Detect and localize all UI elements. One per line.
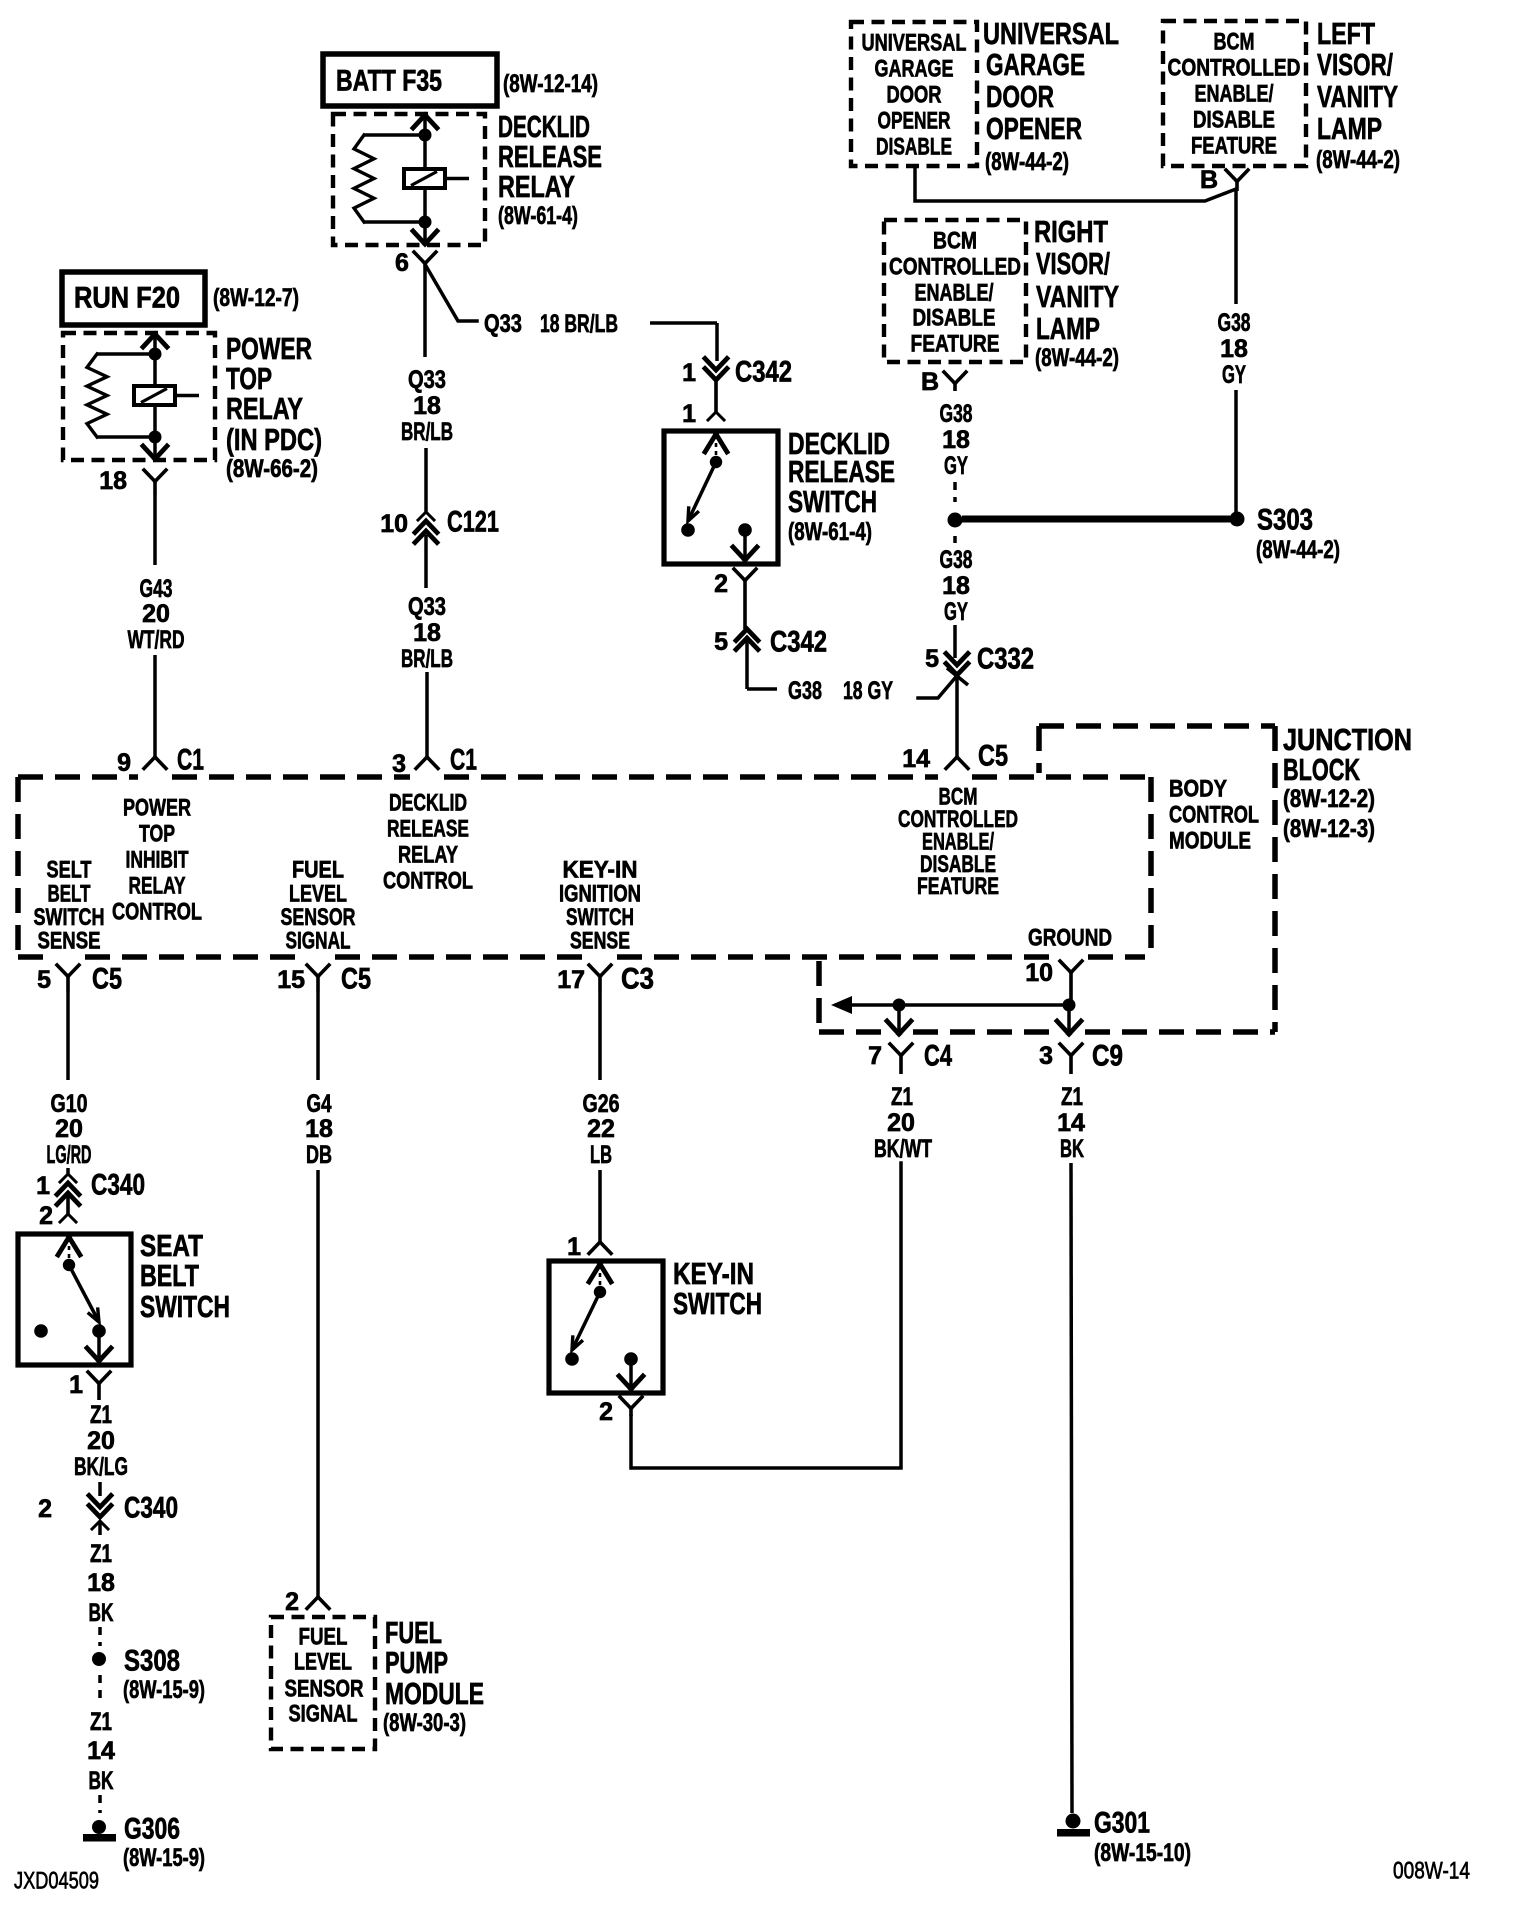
svg-text:JXD04509: JXD04509 — [14, 1868, 99, 1895]
svg-text:18: 18 — [942, 572, 970, 600]
svg-text:SWITCH: SWITCH — [673, 1286, 762, 1321]
svg-text:SWITCH: SWITCH — [140, 1289, 230, 1324]
svg-text:CONTROL: CONTROL — [383, 868, 473, 895]
svg-text:RIGHT: RIGHT — [1034, 214, 1108, 249]
svg-text:C342: C342 — [770, 626, 827, 659]
svg-text:C1: C1 — [450, 744, 477, 777]
svg-text:CONTROL: CONTROL — [1169, 802, 1259, 829]
svg-text:G306: G306 — [124, 1813, 180, 1846]
svg-text:C332: C332 — [977, 643, 1034, 676]
svg-text:(8W-44-2): (8W-44-2) — [1316, 146, 1400, 174]
svg-text:S303: S303 — [1257, 504, 1313, 537]
svg-text:008W-14: 008W-14 — [1393, 1858, 1470, 1885]
svg-text:C5: C5 — [341, 963, 371, 996]
svg-text:Q33: Q33 — [484, 310, 522, 338]
svg-text:18 GY: 18 GY — [843, 677, 893, 705]
svg-text:RELAY: RELAY — [226, 391, 303, 426]
svg-text:INHIBIT: INHIBIT — [126, 847, 189, 874]
svg-text:BODY: BODY — [1169, 776, 1227, 803]
svg-text:(8W-61-4): (8W-61-4) — [788, 518, 872, 546]
svg-text:GARAGE: GARAGE — [875, 56, 954, 83]
svg-text:LAMP: LAMP — [1036, 311, 1100, 346]
svg-text:3: 3 — [1039, 1042, 1053, 1070]
svg-text:18: 18 — [305, 1115, 333, 1143]
svg-text:FEATURE: FEATURE — [917, 873, 999, 900]
svg-text:B: B — [921, 368, 939, 396]
svg-text:(8W-66-2): (8W-66-2) — [226, 455, 318, 483]
svg-text:FEATURE: FEATURE — [1191, 133, 1277, 160]
svg-text:(8W-30-3): (8W-30-3) — [383, 1709, 466, 1737]
svg-text:(8W-12-2): (8W-12-2) — [1283, 785, 1375, 813]
svg-text:(8W-44-2): (8W-44-2) — [1256, 536, 1340, 564]
svg-text:(8W-44-2): (8W-44-2) — [985, 148, 1069, 176]
svg-text:C9: C9 — [1092, 1040, 1123, 1073]
svg-text:C3: C3 — [621, 963, 654, 996]
svg-text:UNIVERSAL: UNIVERSAL — [983, 16, 1119, 51]
svg-text:CONTROLLED: CONTROLLED — [889, 254, 1021, 281]
svg-text:DECKLID: DECKLID — [389, 790, 467, 817]
svg-text:UNIVERSAL: UNIVERSAL — [862, 30, 967, 57]
svg-text:1: 1 — [682, 400, 696, 428]
svg-text:SENSOR: SENSOR — [285, 1676, 364, 1703]
svg-text:G26: G26 — [583, 1090, 620, 1118]
svg-text:5: 5 — [37, 966, 51, 994]
svg-text:Q33: Q33 — [408, 366, 446, 394]
svg-text:2: 2 — [38, 1495, 52, 1523]
svg-text:BK/WT: BK/WT — [874, 1135, 932, 1163]
svg-text:Z1: Z1 — [90, 1540, 112, 1568]
svg-text:9: 9 — [117, 749, 131, 777]
svg-text:G38: G38 — [1218, 309, 1251, 337]
svg-text:15: 15 — [277, 966, 305, 994]
svg-text:BK/LG: BK/LG — [74, 1453, 128, 1481]
svg-text:Z1: Z1 — [1061, 1083, 1083, 1111]
svg-text:G38: G38 — [788, 677, 822, 705]
svg-text:LAMP: LAMP — [1317, 111, 1382, 146]
svg-text:BR/LB: BR/LB — [401, 418, 453, 446]
svg-text:GY: GY — [944, 452, 968, 480]
svg-text:18: 18 — [413, 619, 441, 647]
svg-text:(8W-15-10): (8W-15-10) — [1094, 1839, 1191, 1867]
svg-text:2: 2 — [285, 1588, 299, 1616]
svg-text:18: 18 — [99, 467, 127, 495]
svg-text:PUMP: PUMP — [385, 1645, 448, 1680]
svg-text:C342: C342 — [735, 356, 792, 389]
svg-text:C340: C340 — [124, 1492, 178, 1525]
svg-text:6: 6 — [395, 249, 409, 277]
svg-text:(8W-15-9): (8W-15-9) — [123, 1844, 205, 1872]
svg-text:(8W-61-4): (8W-61-4) — [498, 202, 578, 230]
svg-text:G4: G4 — [307, 1090, 332, 1118]
svg-text:C1: C1 — [177, 744, 204, 777]
svg-text:10: 10 — [1025, 959, 1053, 987]
svg-text:C4: C4 — [924, 1040, 952, 1073]
svg-text:DISABLE: DISABLE — [913, 305, 996, 332]
svg-text:GY: GY — [1222, 361, 1246, 389]
svg-text:BELT: BELT — [140, 1258, 199, 1293]
svg-text:(8W-12-7): (8W-12-7) — [213, 284, 299, 312]
svg-text:SENSE: SENSE — [38, 928, 101, 955]
svg-text:BATT F35: BATT F35 — [336, 65, 442, 98]
svg-text:G10: G10 — [51, 1090, 88, 1118]
svg-text:22: 22 — [587, 1115, 615, 1143]
svg-text:SIGNAL: SIGNAL — [289, 1701, 358, 1728]
svg-text:DISABLE: DISABLE — [1193, 107, 1275, 134]
svg-text:C340: C340 — [91, 1169, 145, 1202]
svg-text:VANITY: VANITY — [1036, 279, 1119, 314]
svg-text:G301: G301 — [1094, 1807, 1150, 1840]
svg-text:5: 5 — [714, 628, 728, 656]
svg-text:Z1: Z1 — [891, 1083, 913, 1111]
svg-text:ENABLE/: ENABLE/ — [1195, 81, 1274, 108]
svg-text:CONTROLLED: CONTROLLED — [1168, 55, 1301, 82]
svg-text:1: 1 — [682, 359, 696, 387]
svg-text:BK: BK — [89, 1599, 114, 1627]
svg-text:LEFT: LEFT — [1317, 16, 1375, 51]
svg-text:20: 20 — [87, 1427, 115, 1455]
svg-text:C121: C121 — [447, 506, 499, 539]
svg-text:B: B — [1200, 166, 1218, 194]
svg-text:(IN PDC): (IN PDC) — [226, 422, 322, 457]
svg-text:14: 14 — [1057, 1109, 1085, 1137]
svg-text:Z1: Z1 — [90, 1708, 112, 1736]
svg-text:DB: DB — [306, 1141, 332, 1169]
svg-text:S308: S308 — [124, 1645, 180, 1678]
svg-text:LG/RD: LG/RD — [47, 1141, 92, 1169]
svg-text:14: 14 — [87, 1737, 115, 1765]
svg-text:RUN F20: RUN F20 — [74, 282, 180, 315]
svg-text:RELEASE: RELEASE — [387, 816, 469, 843]
svg-text:17: 17 — [557, 966, 585, 994]
svg-text:5: 5 — [925, 645, 939, 673]
svg-text:20: 20 — [142, 600, 170, 628]
svg-text:2: 2 — [714, 570, 728, 598]
svg-text:14: 14 — [902, 745, 930, 773]
svg-text:BR/LB: BR/LB — [401, 645, 453, 673]
svg-text:TOP: TOP — [139, 821, 175, 848]
svg-text:BCM: BCM — [933, 228, 977, 255]
svg-text:DOOR: DOOR — [986, 79, 1054, 114]
svg-text:RELAY: RELAY — [129, 873, 186, 900]
svg-text:G43: G43 — [140, 575, 173, 603]
svg-text:SENSE: SENSE — [570, 928, 630, 955]
svg-text:G38: G38 — [940, 546, 973, 574]
svg-text:MODULE: MODULE — [1169, 828, 1251, 855]
svg-text:DOOR: DOOR — [887, 82, 942, 109]
svg-text:G38: G38 — [940, 400, 973, 428]
svg-text:FEATURE: FEATURE — [911, 331, 1000, 358]
svg-text:RELAY: RELAY — [398, 842, 458, 869]
svg-text:(8W-44-2): (8W-44-2) — [1035, 344, 1119, 372]
svg-text:VANITY: VANITY — [1317, 79, 1398, 114]
svg-text:10: 10 — [380, 510, 408, 538]
svg-text:VISOR/: VISOR/ — [1317, 47, 1393, 82]
svg-text:7: 7 — [868, 1042, 882, 1070]
svg-text:MODULE: MODULE — [385, 1676, 484, 1711]
svg-text:GY: GY — [944, 598, 968, 626]
svg-text:1: 1 — [36, 1172, 50, 1200]
svg-text:SWITCH: SWITCH — [788, 484, 877, 519]
svg-text:(8W-15-9): (8W-15-9) — [123, 1676, 205, 1704]
svg-text:POWER: POWER — [123, 795, 191, 822]
svg-text:OPENER: OPENER — [986, 111, 1082, 146]
svg-text:18: 18 — [942, 426, 970, 454]
svg-text:2: 2 — [39, 1202, 53, 1230]
svg-text:18: 18 — [87, 1569, 115, 1597]
svg-text:Q33: Q33 — [408, 593, 446, 621]
svg-text:GARAGE: GARAGE — [986, 47, 1085, 82]
svg-text:20: 20 — [887, 1109, 915, 1137]
svg-text:CONTROL: CONTROL — [112, 899, 202, 926]
svg-text:(8W-12-3): (8W-12-3) — [1283, 815, 1375, 843]
svg-text:3: 3 — [392, 750, 406, 778]
svg-text:LB: LB — [590, 1141, 612, 1169]
svg-text:VISOR/: VISOR/ — [1036, 246, 1110, 281]
svg-text:BK: BK — [89, 1767, 114, 1795]
svg-text:GROUND: GROUND — [1028, 925, 1112, 952]
svg-text:LEVEL: LEVEL — [294, 1649, 352, 1676]
svg-text:20: 20 — [55, 1115, 83, 1143]
svg-text:1: 1 — [69, 1371, 83, 1399]
svg-text:18 BR/LB: 18 BR/LB — [540, 310, 618, 338]
svg-text:18: 18 — [1220, 335, 1248, 363]
svg-text:SIGNAL: SIGNAL — [286, 928, 351, 955]
svg-text:RELAY: RELAY — [498, 169, 575, 204]
svg-text:18: 18 — [413, 392, 441, 420]
svg-text:FUEL: FUEL — [299, 1624, 348, 1651]
svg-text:WT/RD: WT/RD — [128, 626, 185, 654]
svg-text:2: 2 — [599, 1398, 613, 1426]
svg-text:(8W-12-14): (8W-12-14) — [503, 70, 598, 98]
svg-text:BK: BK — [1060, 1135, 1084, 1163]
svg-text:Z1: Z1 — [90, 1401, 112, 1429]
svg-text:C5: C5 — [92, 963, 122, 996]
svg-text:C5: C5 — [978, 740, 1008, 773]
svg-text:DISABLE: DISABLE — [876, 134, 952, 161]
svg-text:OPENER: OPENER — [878, 108, 951, 135]
svg-text:BLOCK: BLOCK — [1283, 752, 1360, 787]
svg-text:BCM: BCM — [1214, 29, 1255, 56]
svg-text:ENABLE/: ENABLE/ — [915, 280, 994, 307]
svg-text:1: 1 — [567, 1233, 581, 1261]
